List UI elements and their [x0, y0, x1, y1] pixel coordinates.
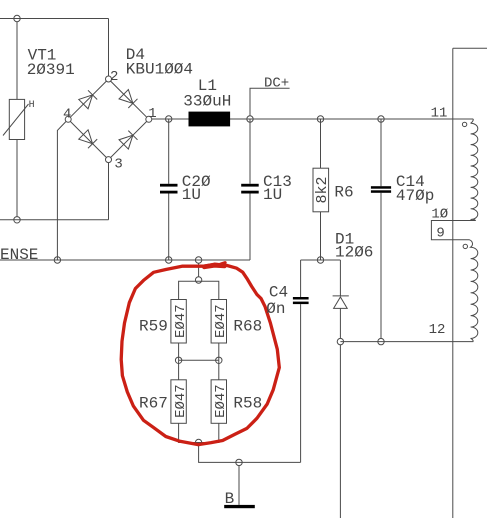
node rail R6: [317, 116, 323, 122]
capacitor C14 wires: [380, 119, 382, 186]
node middle left: [175, 357, 181, 363]
svg-text:1Ø: 1Ø: [431, 207, 448, 223]
R network: stub from sense line: [198, 263, 200, 277]
wire network bottom to B line: [199, 446, 301, 463]
bridge edge 3-1: [111, 121, 147, 157]
svg-text:8k2: 8k2: [314, 176, 331, 203]
wire bridge pin3 drop: [108, 163, 110, 220]
bridge edge 4-3: [70, 121, 106, 157]
resistor R67 body: [171, 380, 186, 424]
node sense/C20: [166, 257, 172, 263]
svg-text:Øn: Øn: [266, 300, 285, 318]
wire top rail left: [0, 18, 109, 20]
node rail C14: [378, 116, 384, 122]
diode bridge D4 upper-right: [119, 90, 138, 109]
bridge edge 2-1: [111, 81, 147, 117]
capacitor C20 plates: [160, 184, 178, 187]
svg-text:R68: R68: [233, 317, 262, 335]
svg-text:KBU1ØØ4: KBU1ØØ4: [126, 61, 193, 79]
pin 9 bracket: [431, 221, 475, 240]
svg-text:1: 1: [148, 106, 156, 122]
svg-text:1U: 1U: [182, 186, 201, 204]
svg-text:33ØuH: 33ØuH: [183, 92, 231, 110]
capacitor C13 plates: [241, 184, 259, 187]
svg-text:EØ47: EØ47: [213, 384, 229, 418]
svg-text:12Ø6: 12Ø6: [335, 243, 373, 261]
svg-text:2Ø391: 2Ø391: [27, 61, 75, 79]
node R network top: [195, 277, 201, 283]
diode D1: [339, 260, 341, 296]
node C14 bottom: [378, 338, 384, 344]
svg-text:4: 4: [63, 107, 71, 123]
resistor R58 body: [211, 380, 226, 424]
svg-text:EØ47: EØ47: [173, 384, 189, 418]
bridge D4 pin 3 terminal: [106, 157, 112, 163]
diode bridge D4 lower-left: [79, 130, 98, 149]
svg-text:C4: C4: [269, 284, 288, 302]
wire ENSE sense line: [0, 259, 250, 261]
R network middle wires: [178, 343, 180, 360]
capacitor C4 plates: [293, 297, 309, 300]
R network bottom rail: [179, 423, 219, 442]
wire main DC rail: [152, 118, 474, 120]
capacitor C13 wires: [249, 119, 251, 184]
wire bridge pin2 drop: [108, 19, 110, 77]
wire B stub: [238, 466, 240, 505]
svg-text:11: 11: [431, 106, 448, 122]
resistor R68 body: [211, 300, 226, 344]
node sense/R-network: [195, 257, 201, 263]
wire C4/R6/D1 link: [301, 259, 341, 261]
svg-text:12: 12: [429, 322, 446, 338]
bridge D4 pin 4 terminal: [65, 116, 71, 122]
wire B-net drop: [339, 345, 341, 518]
node middle right: [216, 357, 222, 363]
wire VT1 bottom: [16, 140, 18, 217]
svg-text:1U: 1U: [263, 186, 282, 204]
transformer winding 11-10: [471, 119, 478, 221]
varistor VT1 diagonal: [3, 104, 29, 136]
wire right bus vertical: [452, 48, 454, 518]
diode bridge D4 upper-left: [79, 90, 98, 109]
node VT1 bottom junction: [14, 217, 20, 223]
node D1 anode: [337, 338, 343, 344]
resistor R6 wires: [320, 119, 322, 168]
node R6 bottom: [317, 257, 323, 263]
svg-text:B: B: [225, 490, 235, 508]
wire right bus top: [453, 47, 487, 49]
wire bridge pin4 to sense drop: [57, 121, 66, 260]
red marker circle: [121, 263, 279, 445]
svg-text:ENSE: ENSE: [0, 246, 38, 264]
bridge edge 4-2: [70, 81, 106, 117]
svg-text:2: 2: [110, 69, 118, 85]
node rail C20: [166, 116, 172, 122]
node rail C13/DC+: [247, 116, 253, 122]
resistor R59 body: [171, 300, 186, 344]
svg-text:H: H: [29, 100, 35, 111]
node sense/bridge4: [54, 257, 60, 263]
svg-text:47Øp: 47Øp: [396, 187, 434, 205]
svg-text:R67: R67: [139, 394, 168, 412]
svg-text:9: 9: [436, 226, 444, 242]
node A top-left junction: [14, 15, 20, 21]
wire VT1 top: [16, 22, 18, 100]
capacitor C4 wires: [300, 260, 302, 297]
svg-text:EØ47: EØ47: [213, 304, 229, 338]
resistor R6 body: [313, 168, 329, 212]
svg-text:EØ47: EØ47: [173, 304, 189, 338]
R network top rail: [179, 281, 219, 299]
svg-text:DC+: DC+: [264, 76, 289, 92]
capacitor C14 plates: [371, 186, 391, 189]
svg-text:3: 3: [114, 157, 122, 173]
node R network bottom: [195, 439, 201, 445]
svg-text:R6: R6: [334, 184, 353, 202]
wire bottom-left rail: [0, 219, 109, 221]
node B junction: [236, 459, 242, 465]
wire pin12 line: [340, 341, 473, 343]
inductor L1 body: [189, 112, 231, 127]
varistor VT1 body: [9, 99, 24, 139]
bridge D4 pin 2 terminal: [106, 76, 112, 82]
svg-text:R59: R59: [139, 317, 168, 335]
svg-text:R58: R58: [233, 394, 262, 412]
transformer winding 9-12: [470, 240, 478, 342]
R network middle link: [179, 359, 219, 361]
capacitor C20 wires: [168, 119, 170, 184]
transformer polarity dot bottom: [463, 244, 467, 248]
transformer polarity dot top: [462, 122, 466, 126]
net flag DC+: [250, 88, 290, 116]
diode bridge D4 lower-right: [119, 131, 138, 150]
bridge D4 pin 1 terminal: [146, 116, 152, 122]
net symbol B bar: [224, 505, 255, 508]
